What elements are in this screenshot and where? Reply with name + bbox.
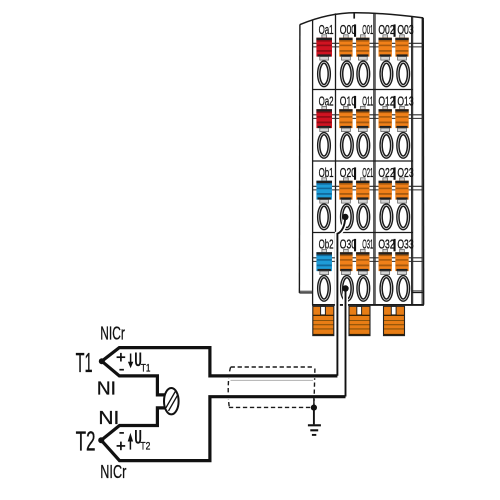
svg-text:NICr: NICr <box>100 324 125 344</box>
svg-text:T1: T1 <box>141 362 151 374</box>
svg-text:T1: T1 <box>76 347 93 378</box>
svg-text:NICr: NICr <box>100 462 126 482</box>
svg-text:NI: NI <box>98 408 119 428</box>
svg-text:T2: T2 <box>140 440 150 452</box>
svg-text:T2: T2 <box>76 425 96 456</box>
svg-text:NI: NI <box>97 379 116 399</box>
